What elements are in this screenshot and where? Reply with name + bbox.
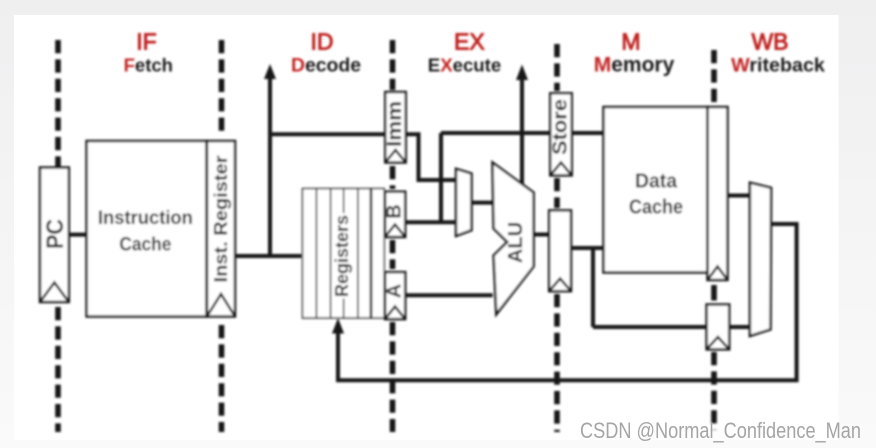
register B	[385, 192, 405, 237]
wire operand mux to ALU	[472, 201, 494, 205]
svg-text:PC: PC	[42, 219, 69, 249]
svg-text:Writeback: Writeback	[731, 55, 825, 77]
svg-text:M: M	[621, 29, 640, 55]
stage boundary dashed line IF/ID	[219, 40, 225, 137]
register A	[385, 272, 405, 319]
wire EX riser with up arrow branch target	[520, 76, 524, 186]
wire Store register to Data Cache	[572, 131, 604, 135]
svg-text:ALU: ALU	[505, 222, 527, 263]
arrowhead writeback into Registers	[332, 318, 344, 334]
arrowhead EX up arrow	[516, 65, 528, 81]
wire bypass riser around Data Cache	[591, 248, 595, 327]
svg-text:Cache: Cache	[629, 196, 683, 219]
svg-text:Cache: Cache	[119, 234, 171, 256]
svg-text:EX: EX	[454, 29, 485, 55]
register file Registers box with stripes	[303, 189, 385, 318]
wire Inst. Register to Registers	[235, 254, 301, 258]
svg-text:Instruction: Instruction	[98, 207, 193, 229]
wire PC to Instruction Cache	[69, 233, 87, 237]
svg-text:WB: WB	[751, 29, 788, 55]
register Store	[550, 93, 571, 175]
stage boundary dashed line ID/EX	[390, 40, 396, 90]
wire A output to ALU	[405, 293, 493, 297]
wire store data to Store register	[441, 131, 550, 135]
svg-text:Registers: Registers	[332, 215, 352, 297]
stage boundary dashed line IF-left	[55, 40, 61, 167]
svg-text:EXecute: EXecute	[428, 55, 501, 76]
wire Imm output to operand mux	[406, 134, 456, 180]
stage boundary dashed line EX/M	[554, 44, 560, 91]
operand mux	[456, 169, 472, 236]
thick stripe in Registers	[370, 189, 373, 318]
ALU	[493, 163, 534, 315]
wire writeback mux output loop to Registers	[338, 224, 797, 380]
wire ALU output to EX/M register	[534, 233, 550, 237]
svg-text:A: A	[384, 284, 406, 298]
svg-text:Fetch: Fetch	[124, 55, 173, 76]
wire ID riser with up arrow to fetch	[268, 75, 272, 256]
wire EX/M register to Data Cache	[571, 246, 604, 250]
svg-text:ID: ID	[311, 29, 334, 55]
stage boundary dashed line M/WB	[711, 50, 717, 105]
arrowhead ID up arrow	[264, 64, 276, 79]
register EX/M result	[549, 210, 571, 291]
svg-text:Store: Store	[550, 99, 572, 155]
wire instruction to Imm	[270, 132, 385, 136]
svg-text:Decode: Decode	[291, 55, 361, 77]
register M/WB	[708, 107, 728, 280]
svg-text:B: B	[384, 204, 406, 218]
writeback mux	[750, 183, 771, 336]
wire B output to operand mux	[405, 220, 456, 224]
stage boundary dashed line M/WB middle dash	[711, 285, 717, 301]
wire M/WB register to writeback mux	[728, 194, 750, 198]
svg-text:Inst. Register: Inst. Register	[210, 155, 231, 282]
register Imm	[385, 92, 405, 163]
svg-text:CSDN @Normal_Confidence_Man: CSDN @Normal_Confidence_Man	[580, 418, 861, 443]
wire bypass to WB register and mux	[593, 325, 750, 329]
svg-text:Memory: Memory	[594, 54, 675, 77]
wire B riser to store path	[439, 133, 443, 222]
svg-text:Imm: Imm	[384, 101, 406, 147]
register Inst. Register	[207, 141, 235, 317]
svg-text:IF: IF	[136, 29, 156, 55]
register PC	[40, 168, 69, 303]
instruction cache box	[87, 141, 207, 317]
svg-text:Data: Data	[635, 170, 678, 193]
register WB passthrough	[707, 305, 730, 350]
data cache box	[604, 107, 708, 273]
